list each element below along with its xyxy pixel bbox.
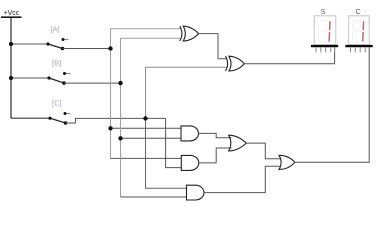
svg-text:[B]: [B]: [52, 59, 61, 68]
svg-text:o: o: [364, 9, 367, 14]
svg-text:[A]: [A]: [51, 25, 60, 34]
svg-text:S: S: [321, 9, 326, 16]
svg-text:+Vcc: +Vcc: [4, 10, 20, 17]
svg-text:C: C: [356, 9, 361, 16]
svg-text:[C]: [C]: [52, 99, 62, 108]
